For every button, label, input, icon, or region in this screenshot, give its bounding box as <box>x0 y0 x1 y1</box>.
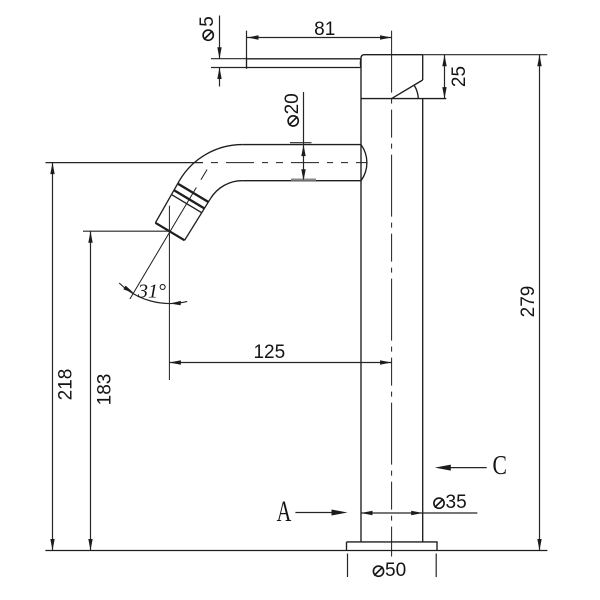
arrow phi20 down <box>301 169 305 181</box>
label C leader <box>450 467 487 469</box>
lever bar bottom edge <box>247 67 362 69</box>
dim phi20 tick bottom <box>291 179 316 181</box>
dim 218 line <box>52 163 54 551</box>
text phi20 rotated <box>282 93 303 126</box>
arrow 218 up <box>50 163 54 175</box>
text phi5 rotated <box>197 16 218 40</box>
svg-text:183: 183 <box>95 374 116 406</box>
arrow phi5 up <box>217 68 221 80</box>
dim 218 extension line <box>46 162 204 164</box>
aerator ring line 2 <box>174 190 204 208</box>
dim phi20 inner stem <box>303 145 305 181</box>
text phi50 <box>373 560 406 581</box>
baseline countertop <box>45 550 547 552</box>
aerator ring line 1 <box>178 184 208 202</box>
dim phi5 line upper <box>219 16 221 59</box>
spout inner bend arc <box>210 181 242 199</box>
dim 279 line <box>539 55 541 551</box>
spout right edge <box>185 199 211 241</box>
dim 81 left extension <box>246 31 248 58</box>
lever bar left end cap <box>246 57 248 68</box>
spout centerline angled <box>174 163 211 225</box>
dim phi5 extension top <box>211 58 247 60</box>
dim phi50 extension right <box>435 554 437 578</box>
arrow 125 right <box>380 360 392 364</box>
dim phi20 line <box>303 92 305 145</box>
label A leader <box>295 512 336 514</box>
spout bottom edge <box>242 180 361 182</box>
svg-text:A: A <box>277 494 292 528</box>
dim 31deg arc <box>119 283 187 304</box>
arrow phi35 left <box>361 511 373 515</box>
arrow phi5 down <box>217 47 221 59</box>
dim 183 extension line <box>83 230 169 232</box>
text phi35 <box>434 492 467 513</box>
arrow 81 right <box>380 35 392 39</box>
spout top edge <box>242 144 361 146</box>
column right edge upper (cap) <box>422 55 424 80</box>
svg-text:218: 218 <box>56 369 77 401</box>
cap bottom line with extension to 25-dim <box>361 98 446 100</box>
spout axis extension 31deg line <box>130 225 174 299</box>
handle housing cap outline <box>361 55 423 99</box>
arrow 279 up <box>537 55 541 66</box>
base flange <box>347 542 438 551</box>
arrow phi35 right <box>411 511 423 515</box>
dim phi5 extension bottom <box>211 67 247 69</box>
svg-text:31°: 31° <box>137 281 166 303</box>
aerator end face <box>155 223 184 241</box>
arrowheads <box>50 35 541 550</box>
dim phi50 extension left <box>347 554 349 578</box>
dim 25 top extension <box>423 54 548 56</box>
svg-text:35: 35 <box>446 492 467 513</box>
vertical reference line at spout tip <box>168 206 170 380</box>
lever tilt diagonal <box>392 80 423 99</box>
arrow 279 down <box>537 539 541 551</box>
arrow 31deg left <box>123 286 133 293</box>
arrow 25 up <box>442 55 446 66</box>
dimension texts <box>56 19 540 405</box>
dim phi5 line lower <box>219 68 221 87</box>
arrow 81 left <box>247 35 259 39</box>
arrow phi20 up <box>301 145 305 157</box>
dim 183 line <box>90 231 92 550</box>
svg-text:25: 25 <box>449 66 470 87</box>
arrow 183 down <box>88 539 92 551</box>
svg-text:50: 50 <box>385 560 406 581</box>
arrow 183 up <box>88 231 92 243</box>
svg-text:125: 125 <box>253 342 285 363</box>
svg-text:81: 81 <box>314 19 335 40</box>
arrow label A <box>332 510 348 516</box>
dim 81 line <box>247 37 392 39</box>
spout centerline horizontal <box>211 162 367 164</box>
aerator ring line 3 <box>172 195 202 213</box>
svg-text:C: C <box>492 451 506 481</box>
svg-text:20: 20 <box>282 93 303 114</box>
lever bar top edge <box>247 58 362 60</box>
spout outer bend arc <box>180 145 243 181</box>
lever tilt arc <box>414 86 418 99</box>
column centerline <box>391 31 393 557</box>
arrow label C <box>435 465 451 471</box>
svg-text:279: 279 <box>518 286 539 318</box>
arrow 125 left <box>169 360 181 364</box>
spout left edge <box>155 180 179 223</box>
column left edge <box>360 99 362 542</box>
lever bar end intersection bulge <box>359 59 362 68</box>
dim phi35 line <box>361 512 477 514</box>
dim 125 line <box>169 362 391 364</box>
arrow 218 down <box>50 539 54 551</box>
column right edge <box>422 99 424 542</box>
arrow 31deg right <box>170 301 181 305</box>
dim 25 line <box>444 55 446 99</box>
dim phi20 tick top <box>290 142 312 144</box>
svg-text:5: 5 <box>197 16 218 27</box>
spout-column intersection bulge <box>361 145 367 181</box>
arrow 25 down <box>442 87 446 99</box>
